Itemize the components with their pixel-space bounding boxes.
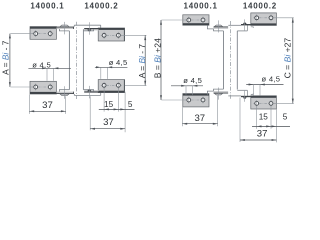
chain bottom edge under plate <box>251 93 253 94</box>
bracket 14000.2 bottom flange thick bar <box>241 96 251 97</box>
mirror centre line right diagram <box>229 21 231 100</box>
svg-text:37: 37 <box>103 117 114 128</box>
dim ext lines 15/5 (right view) <box>256 107 258 129</box>
svg-text:C = Bi +27: C = Bi +27 <box>283 38 293 79</box>
chain side wall right sub-view (right view) <box>236 31 238 90</box>
chain bottom edge right sub-view (right view) <box>228 95 241 97</box>
dim line B <box>160 20 162 100</box>
dim arrow A left down <box>9 82 11 87</box>
bracket 14000.2 top hook <box>243 23 247 24</box>
chain bar bottom-left dark edge <box>214 92 229 95</box>
bracket 14000.2 bottom flange thick bar <box>84 91 98 92</box>
dim arrows o4,5 left <box>42 67 47 69</box>
chain top edge left step <box>73 25 75 26</box>
svg-text:A = Bi - 7: A = Bi - 7 <box>137 44 147 79</box>
bracket 14000.1 bottom plate (right view) <box>183 94 209 107</box>
chain step contour bottom-left (right view) <box>214 89 224 91</box>
chain step contour top-right (right view) <box>237 30 247 32</box>
bracket 14000.1 bottom thick edge <box>30 92 56 94</box>
bracket 14000.2 bottom flange gray strip <box>84 90 98 91</box>
chain bar top-left dark edge <box>214 26 229 29</box>
svg-text:14000.2: 14000.2 <box>243 2 277 11</box>
chain bar top-left (right view) <box>214 27 229 29</box>
svg-text:15: 15 <box>259 113 269 122</box>
chain side wall right sub-view <box>82 29 84 89</box>
bracket 14000.2 top plate (right view) <box>251 13 277 26</box>
bracket 14000.1 top plate (right view) <box>183 15 209 25</box>
bracket 14000.1 top thick edge <box>30 27 56 29</box>
dim arrow B down <box>160 95 162 100</box>
holes of bracket 14000.1 top <box>32 33 53 35</box>
bracket 14000.2 bottom hook <box>243 97 247 98</box>
svg-text:37: 37 <box>257 129 268 140</box>
holes of bracket 14000.1 bottom (right view) <box>186 99 207 101</box>
bracket 14000.2 top plate top band <box>98 28 124 30</box>
extension line to dim A right (bottom) <box>125 84 147 86</box>
dim ext lines 37 left (right view) <box>181 107 183 126</box>
dim line 37 left <box>29 110 65 112</box>
pin centre line bottom-left <box>63 86 65 99</box>
bracket 14000.2 top hook <box>87 29 91 31</box>
dim ext line 37 right (left end) <box>89 96 91 130</box>
bracket 14000.1 bottom flange dark line <box>56 92 74 95</box>
chain pin boss bottom-left <box>60 94 69 96</box>
chain step riser bottom-right (right view) <box>246 90 248 96</box>
bracket 14000.1 top flange bar <box>56 28 74 30</box>
pin centre line top-left (right view) <box>218 20 220 32</box>
bracket 14000.1 bottom flange bar <box>56 92 74 94</box>
chain bottom edge right sub-view <box>74 94 100 96</box>
chain step contour bottom-right (right view) <box>237 89 247 91</box>
svg-text:B = Bi +24: B = Bi +24 <box>152 38 162 78</box>
dim ext line 37 (right view left end) <box>239 98 241 143</box>
bracket 14000.2 top flange thick bar <box>241 24 251 25</box>
dim line o4,5 left <box>28 67 71 69</box>
dim arrows o4,5 right <box>96 66 101 68</box>
dim ext lines o4,5 right (right view) <box>252 85 254 96</box>
dim line A left <box>9 34 11 87</box>
dim line C <box>292 18 294 104</box>
dim line o4,5 right (right view) <box>246 84 283 86</box>
chain side wall left sub-view <box>68 31 70 90</box>
extension line to dim A right (top) <box>122 34 147 36</box>
dim line 37 left (right view) <box>182 123 217 125</box>
holes of bracket 14000.1 top (right view) <box>186 19 207 21</box>
dim arrows 15/5 (right view) <box>257 125 262 127</box>
dim line 37 right sub (right view) <box>240 139 276 141</box>
holes of bracket 14000.2 bottom <box>101 84 122 86</box>
dim arrows o4,5 left (right view) <box>181 85 186 87</box>
extension line to dim C top <box>274 17 294 19</box>
dim line A right <box>144 35 146 85</box>
svg-text:A = Bi - 7: A = Bi - 7 <box>1 40 11 75</box>
bracket 14000.2 bottom plate right edge <box>123 80 126 93</box>
bracket 14000.1 bottom tongue <box>207 91 213 95</box>
extension line to dim A left (bottom) <box>10 86 33 88</box>
dim arrows 15/5 <box>104 108 109 110</box>
pin centre line bottom 14000.2 (right view) <box>244 91 246 102</box>
dim line 37 right <box>90 128 125 130</box>
bracket 14000.2 top flange thick bar <box>84 28 98 29</box>
svg-text:14000.1: 14000.1 <box>184 2 218 11</box>
dim line 15/5 <box>99 108 135 110</box>
svg-text:5: 5 <box>283 113 288 122</box>
chain pin boss bottom-left (right view) <box>214 94 222 96</box>
dim arrow A right up <box>144 35 146 40</box>
bracket 14000.2 top plate right edge <box>123 28 126 41</box>
chain top edge right sub-view <box>74 24 100 26</box>
chain top edge right sub-view (right view) <box>228 24 241 26</box>
chain top edge step down <box>100 25 102 29</box>
chain step riser top-right (right view) <box>246 25 248 31</box>
chain bar bottom-left (right view) <box>214 91 229 93</box>
dim line o4,5 left (right view) <box>171 85 203 87</box>
svg-text:14000.1: 14000.1 <box>30 2 64 11</box>
mirror centre line left diagram <box>76 22 78 99</box>
chain bottom edge left step <box>73 94 75 95</box>
bracket 14000.1 top plate thick bottom edge <box>183 23 209 25</box>
svg-text:37: 37 <box>194 113 205 124</box>
extension line to dim B top <box>161 19 186 21</box>
chain step contour bottom-right <box>83 90 93 92</box>
dim arrow C up <box>292 18 294 23</box>
svg-text:37: 37 <box>42 100 53 111</box>
chain step contour top-right <box>83 29 93 31</box>
bracket 14000.2 top plate thick bottom band <box>251 23 277 25</box>
pin centre line bottom-left (right view) <box>218 88 220 100</box>
bracket 14000.2 top plate <box>98 28 124 41</box>
bracket 14000.1 top plate (left view) <box>30 27 56 40</box>
dim arrows 37 left (right view) <box>182 123 187 125</box>
dim line 15/5 (right view) <box>252 125 290 127</box>
dim arrows 37 right sub (right view) <box>240 139 245 141</box>
holes of bracket 14000.1 bottom <box>32 86 53 88</box>
bracket 14000.2 bottom plate thick top band <box>251 96 277 98</box>
chain step contour top-left <box>59 29 69 31</box>
holes of bracket 14000.2 top (right view) <box>253 17 274 19</box>
dim arrow A right down <box>144 81 146 86</box>
pin centre line top-right <box>88 22 90 35</box>
bracket 14000.1 bottom plate (left view) <box>30 81 56 94</box>
bracket 14000.1 top flange end edge <box>72 27 75 29</box>
dim ext lines 15 and 5 <box>103 88 105 112</box>
dim arrows o4,5 right (right view) <box>249 84 254 86</box>
svg-text:5: 5 <box>128 100 133 109</box>
bracket 14000.2 top flange gray strip <box>84 29 98 30</box>
dim arrows 37 left <box>29 110 34 112</box>
chain pin boss top-left <box>60 25 69 27</box>
dim ext lines o4,5 left (right view) <box>185 86 187 95</box>
bracket 14000.1 bottom flange end edge <box>72 92 75 94</box>
svg-text:14000.2: 14000.2 <box>84 2 118 11</box>
bracket 14000.2 bottom plate bottom band <box>98 91 124 93</box>
dim ext lines o4,5 left <box>46 68 48 80</box>
holes of bracket 14000.2 bottom (right view) <box>253 102 274 104</box>
extension line to dim A left (top) <box>10 33 33 35</box>
extension line to dim C bottom <box>274 102 294 104</box>
bracket 14000.2 bottom hook <box>87 89 91 91</box>
extension line to dim B bottom <box>161 99 186 101</box>
bracket 14000.1 top flange dark line <box>56 26 74 29</box>
dim arrow A left up <box>9 34 11 39</box>
pin centre line bottom-right <box>88 86 90 99</box>
svg-text:ø 4,5: ø 4,5 <box>262 75 281 84</box>
bracket 14000.2 bottom plate <box>98 80 124 93</box>
dim ext lines o4,5 right <box>100 67 102 79</box>
pin centre line top 14000.2 (right view) <box>244 19 246 30</box>
bracket 14000.2 bottom plate (right view) <box>251 96 277 109</box>
dim arrow C down <box>292 99 294 104</box>
chain bottom edge step up <box>100 91 102 95</box>
holes of bracket 14000.2 top <box>101 34 122 36</box>
svg-text:ø 4,5: ø 4,5 <box>183 76 202 85</box>
svg-text:ø 4,5: ø 4,5 <box>109 58 128 67</box>
bracket 14000.1 bottom plate thick top edge <box>183 94 209 96</box>
svg-text:15: 15 <box>104 100 114 109</box>
chain step contour top-left (right view) <box>214 29 224 31</box>
dim arrow B up <box>160 20 162 25</box>
chain side wall left sub-view (right view) <box>223 31 225 89</box>
dim ext lines 37 left <box>28 95 30 114</box>
chain pin boss top-left (right view) <box>214 25 222 27</box>
dim line o4,5 right <box>95 66 128 68</box>
chain step contour bottom-left <box>59 90 69 92</box>
bracket 14000.1 top tongue <box>207 25 213 29</box>
chain top edge under plate <box>251 27 253 28</box>
dim arrows 37 right <box>90 128 95 130</box>
pin centre line top-left <box>63 22 65 35</box>
